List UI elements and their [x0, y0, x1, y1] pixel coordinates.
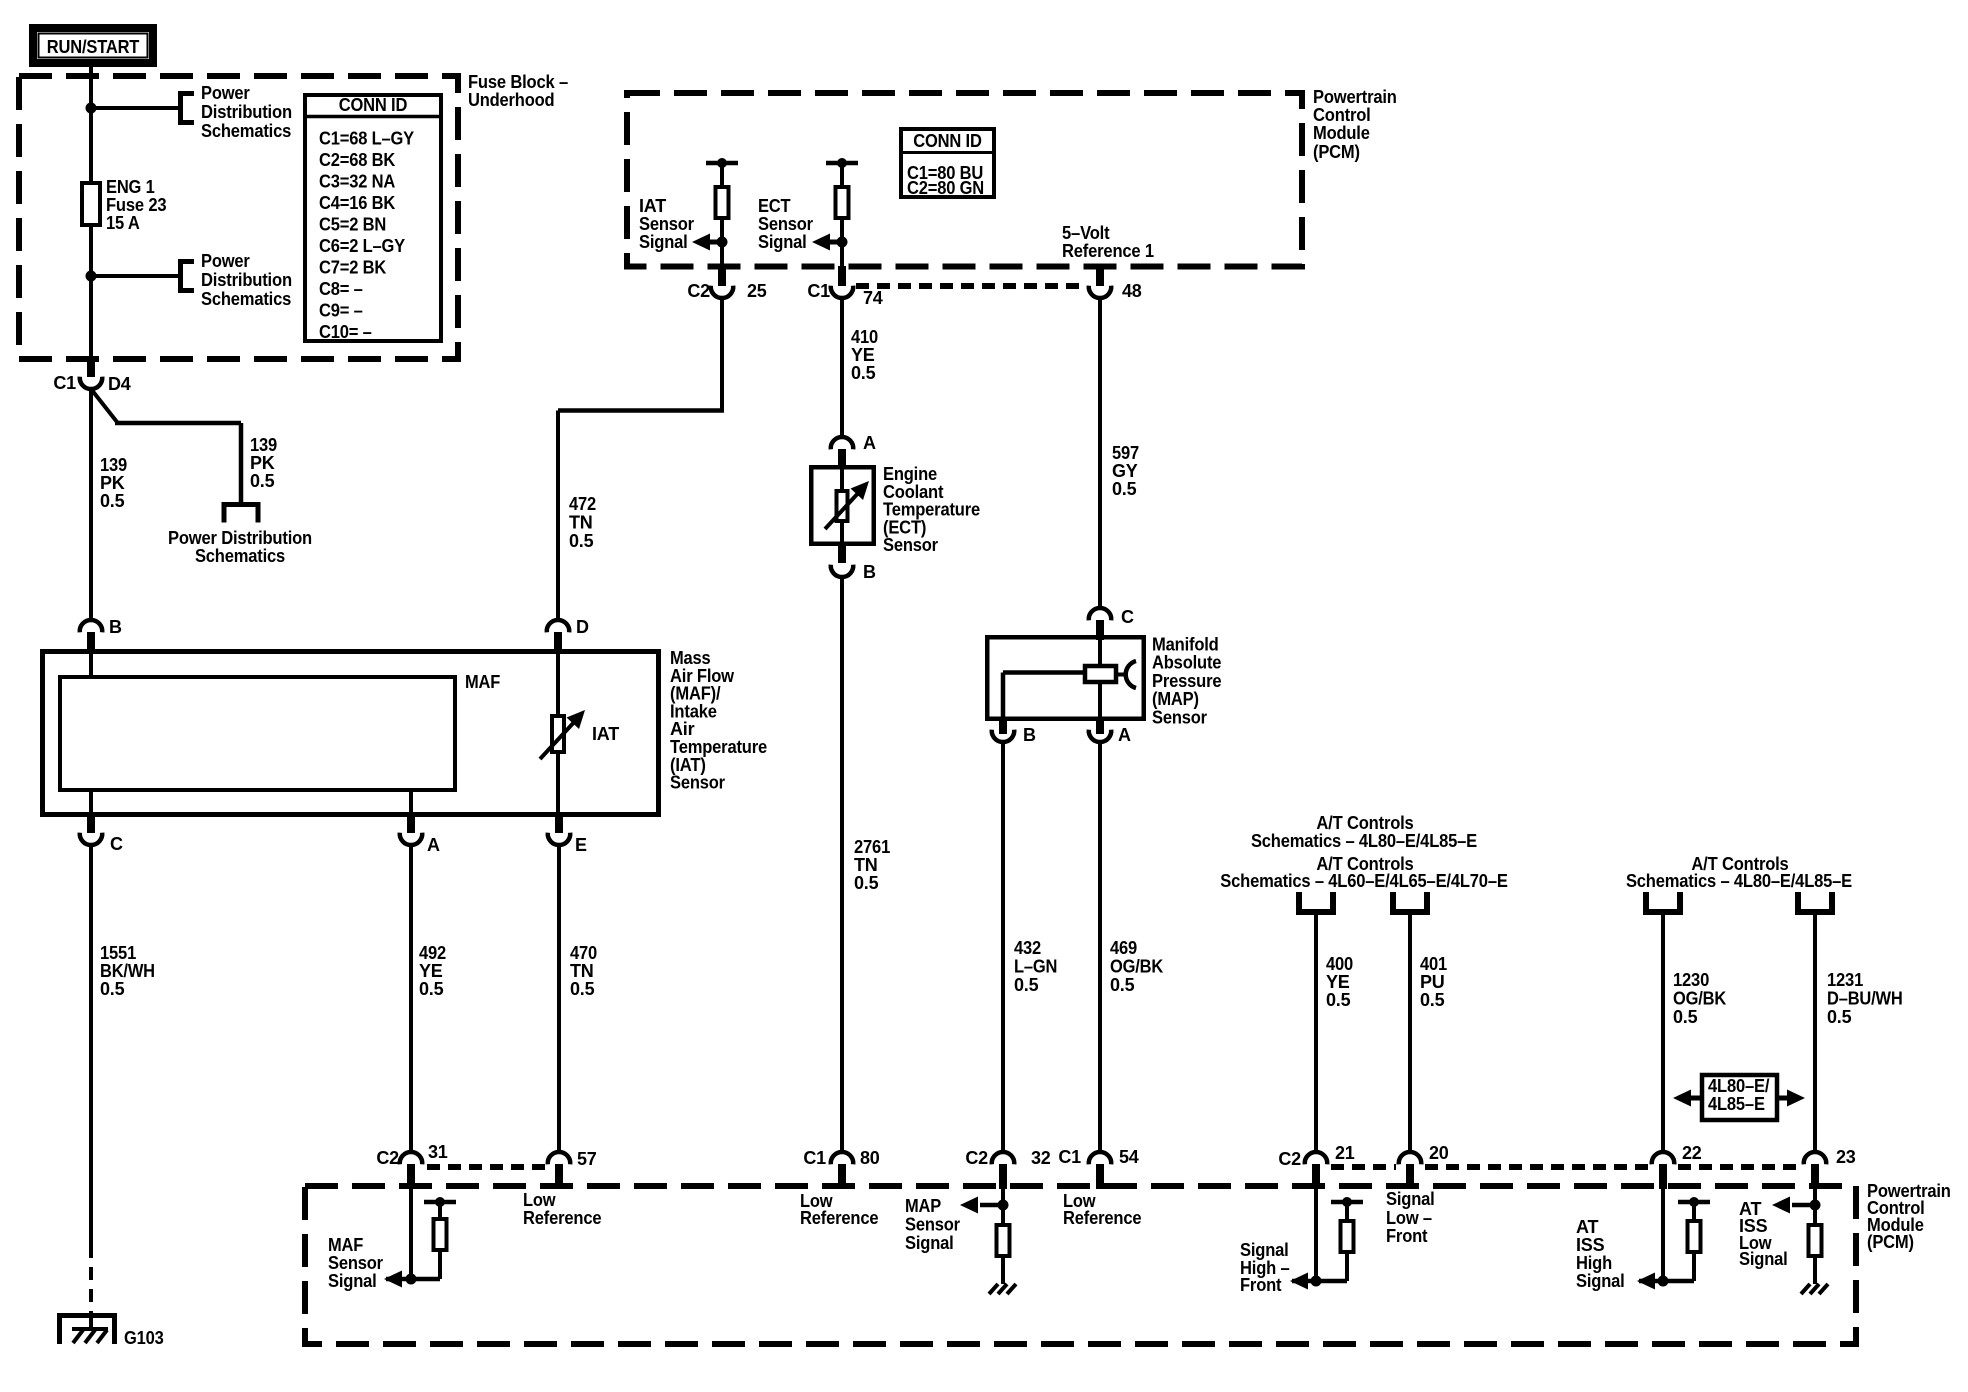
svg-text:Underhood: Underhood	[468, 90, 554, 110]
svg-text:472: 472	[569, 494, 596, 514]
svg-text:0.5: 0.5	[1827, 1007, 1852, 1027]
svg-text:0.5: 0.5	[100, 491, 125, 511]
svg-text:CONN ID: CONN ID	[913, 131, 982, 151]
svg-text:C2=80 GN: C2=80 GN	[907, 178, 984, 198]
svg-text:D: D	[576, 617, 589, 637]
svg-text:2761: 2761	[854, 837, 890, 857]
svg-text:C3=32 NA: C3=32 NA	[319, 172, 395, 192]
svg-text:Signal: Signal	[1739, 1249, 1788, 1269]
svg-text:B: B	[863, 562, 876, 582]
svg-text:ISS: ISS	[1576, 1235, 1605, 1255]
svg-text:C1: C1	[803, 1148, 826, 1168]
svg-text:YE: YE	[851, 345, 875, 365]
svg-text:Power: Power	[201, 251, 250, 271]
svg-text:(PCM): (PCM)	[1867, 1232, 1914, 1252]
svg-text:15 A: 15 A	[106, 213, 140, 233]
svg-text:TN: TN	[570, 961, 594, 981]
svg-text:C10= –: C10= –	[319, 322, 372, 342]
svg-text:Fuse 23: Fuse 23	[106, 195, 167, 215]
svg-text:ENG 1: ENG 1	[106, 177, 155, 197]
svg-text:31: 31	[428, 1142, 448, 1162]
svg-text:B: B	[109, 617, 122, 637]
svg-text:48: 48	[1122, 281, 1142, 301]
svg-text:25: 25	[747, 281, 767, 301]
svg-text:C2=68 BK: C2=68 BK	[319, 150, 395, 170]
svg-text:MAP: MAP	[905, 1196, 941, 1216]
svg-text:Schematics – 4L80–E/4L85–E: Schematics – 4L80–E/4L85–E	[1251, 831, 1477, 851]
svg-text:Schematics: Schematics	[201, 289, 291, 309]
svg-text:0.5: 0.5	[419, 979, 444, 999]
svg-text:23: 23	[1836, 1147, 1856, 1167]
svg-text:Front: Front	[1386, 1226, 1428, 1246]
svg-text:1230: 1230	[1673, 970, 1709, 990]
svg-text:High: High	[1576, 1253, 1612, 1273]
svg-text:22: 22	[1682, 1143, 1702, 1163]
svg-text:74: 74	[863, 288, 883, 308]
svg-text:IAT: IAT	[592, 724, 619, 744]
svg-text:TN: TN	[569, 513, 593, 533]
svg-text:PK: PK	[250, 453, 275, 473]
svg-text:139: 139	[100, 455, 127, 475]
svg-text:Sensor: Sensor	[670, 773, 725, 793]
svg-text:ECT: ECT	[758, 196, 791, 216]
svg-text:GY: GY	[1112, 461, 1138, 481]
svg-text:A: A	[427, 835, 440, 855]
svg-text:Schematics: Schematics	[195, 546, 285, 566]
svg-text:TN: TN	[854, 855, 878, 875]
svg-text:Low: Low	[523, 1190, 556, 1210]
svg-text:Signal: Signal	[758, 232, 807, 252]
svg-text:57: 57	[577, 1149, 597, 1169]
svg-text:Absolute: Absolute	[1152, 653, 1221, 673]
svg-text:A: A	[1118, 725, 1131, 745]
svg-text:Signal: Signal	[639, 232, 688, 252]
svg-text:400: 400	[1326, 954, 1353, 974]
svg-text:Signal: Signal	[1386, 1189, 1435, 1209]
svg-text:0.5: 0.5	[851, 363, 876, 383]
svg-text:Reference: Reference	[523, 1208, 602, 1228]
svg-text:Module: Module	[1313, 123, 1370, 143]
svg-text:0.5: 0.5	[1110, 975, 1135, 995]
svg-text:B: B	[1023, 725, 1036, 745]
svg-text:Schematics: Schematics	[201, 121, 291, 141]
svg-text:Control: Control	[1313, 105, 1371, 125]
svg-text:BK/WH: BK/WH	[100, 961, 155, 981]
svg-text:CONN ID: CONN ID	[339, 95, 408, 115]
svg-text:Signal: Signal	[1576, 1271, 1625, 1291]
svg-text:IAT: IAT	[639, 196, 666, 216]
svg-text:Sensor: Sensor	[758, 214, 813, 234]
svg-text:0.5: 0.5	[854, 873, 879, 893]
svg-text:C: C	[1121, 607, 1134, 627]
svg-text:C4=16 BK: C4=16 BK	[319, 193, 395, 213]
svg-text:YE: YE	[1326, 972, 1350, 992]
svg-text:410: 410	[851, 327, 878, 347]
svg-text:Sensor: Sensor	[328, 1253, 383, 1273]
svg-text:C2: C2	[687, 281, 710, 301]
svg-text:0.5: 0.5	[1420, 990, 1445, 1010]
svg-text:A: A	[863, 433, 876, 453]
svg-text:Sensor: Sensor	[639, 214, 694, 234]
svg-text:Distribution: Distribution	[201, 102, 292, 122]
svg-text:C1: C1	[1058, 1147, 1081, 1167]
svg-text:(PCM): (PCM)	[1313, 142, 1360, 162]
svg-text:Manifold: Manifold	[1152, 635, 1219, 655]
svg-text:AT: AT	[1576, 1217, 1598, 1237]
svg-text:0.5: 0.5	[569, 531, 594, 551]
svg-text:Sensor: Sensor	[883, 535, 938, 555]
svg-text:MAF: MAF	[465, 672, 500, 692]
svg-text:Signal: Signal	[1240, 1240, 1289, 1260]
svg-text:C8= –: C8= –	[319, 279, 363, 299]
svg-text:Schematics – 4L60–E/4L65–E/4L7: Schematics – 4L60–E/4L65–E/4L70–E	[1220, 871, 1508, 891]
svg-text:0.5: 0.5	[100, 979, 125, 999]
svg-text:Pressure: Pressure	[1152, 671, 1222, 691]
svg-text:E: E	[575, 835, 587, 855]
svg-text:C1: C1	[807, 281, 830, 301]
svg-text:C1=68 L–GY: C1=68 L–GY	[319, 129, 414, 149]
svg-text:C7=2 BK: C7=2 BK	[319, 258, 386, 278]
svg-text:Sensor: Sensor	[1152, 707, 1207, 727]
svg-text:0.5: 0.5	[1326, 990, 1351, 1010]
svg-text:C2: C2	[376, 1148, 399, 1168]
svg-text:Schematics – 4L80–E/4L85–E: Schematics – 4L80–E/4L85–E	[1626, 871, 1852, 891]
svg-text:0.5: 0.5	[1014, 975, 1039, 995]
svg-text:D4: D4	[108, 374, 131, 394]
svg-text:Sensor: Sensor	[905, 1215, 960, 1235]
svg-text:1231: 1231	[1827, 970, 1863, 990]
svg-text:0.5: 0.5	[1112, 479, 1137, 499]
svg-text:YE: YE	[419, 961, 443, 981]
svg-text:432: 432	[1014, 938, 1041, 958]
svg-text:Distribution: Distribution	[201, 270, 292, 290]
svg-text:PU: PU	[1420, 972, 1445, 992]
svg-text:G103: G103	[124, 1328, 164, 1348]
svg-text:RUN/START: RUN/START	[47, 37, 140, 57]
svg-text:Power: Power	[201, 83, 250, 103]
svg-text:Reference 1: Reference 1	[1062, 241, 1154, 261]
svg-text:0.5: 0.5	[250, 471, 275, 491]
svg-text:OG/BK: OG/BK	[1673, 989, 1726, 1009]
svg-text:401: 401	[1420, 954, 1447, 974]
svg-text:492: 492	[419, 943, 446, 963]
svg-text:54: 54	[1119, 1147, 1139, 1167]
svg-text:Reference: Reference	[800, 1208, 879, 1228]
svg-text:C: C	[110, 834, 123, 854]
svg-text:32: 32	[1031, 1148, 1051, 1168]
svg-text:PK: PK	[100, 473, 125, 493]
svg-text:C6=2 L–GY: C6=2 L–GY	[319, 236, 405, 256]
svg-text:Power Distribution: Power Distribution	[168, 528, 312, 548]
svg-text:1551: 1551	[100, 943, 136, 963]
svg-text:C5=2 BN: C5=2 BN	[319, 215, 386, 235]
svg-text:(MAP): (MAP)	[1152, 689, 1199, 709]
svg-text:469: 469	[1110, 938, 1137, 958]
svg-text:L–GN: L–GN	[1014, 957, 1057, 977]
svg-text:Powertrain: Powertrain	[1313, 87, 1397, 107]
svg-text:Fuse Block –: Fuse Block –	[468, 72, 568, 92]
svg-text:139: 139	[250, 435, 277, 455]
svg-text:Front: Front	[1240, 1275, 1282, 1295]
svg-text:Signal: Signal	[905, 1233, 954, 1253]
svg-text:597: 597	[1112, 443, 1139, 463]
svg-text:Reference: Reference	[1063, 1208, 1142, 1228]
svg-text:C9= –: C9= –	[319, 301, 363, 321]
svg-text:C1: C1	[53, 373, 76, 393]
svg-text:4L80–E/: 4L80–E/	[1708, 1076, 1769, 1096]
svg-text:A/T Controls: A/T Controls	[1316, 813, 1413, 833]
svg-text:0.5: 0.5	[1673, 1007, 1698, 1027]
svg-text:21: 21	[1335, 1143, 1355, 1163]
svg-text:470: 470	[570, 943, 597, 963]
svg-text:80: 80	[860, 1148, 880, 1168]
svg-text:D–BU/WH: D–BU/WH	[1827, 989, 1903, 1009]
svg-text:OG/BK: OG/BK	[1110, 957, 1163, 977]
svg-text:20: 20	[1429, 1143, 1449, 1163]
svg-text:C2: C2	[1278, 1149, 1301, 1169]
svg-text:Low –: Low –	[1386, 1208, 1432, 1228]
svg-text:0.5: 0.5	[570, 979, 595, 999]
svg-text:4L85–E: 4L85–E	[1708, 1094, 1765, 1114]
svg-text:MAF: MAF	[328, 1235, 363, 1255]
svg-text:5–Volt: 5–Volt	[1062, 223, 1110, 243]
svg-text:Signal: Signal	[328, 1271, 377, 1291]
svg-text:C2: C2	[965, 1148, 988, 1168]
